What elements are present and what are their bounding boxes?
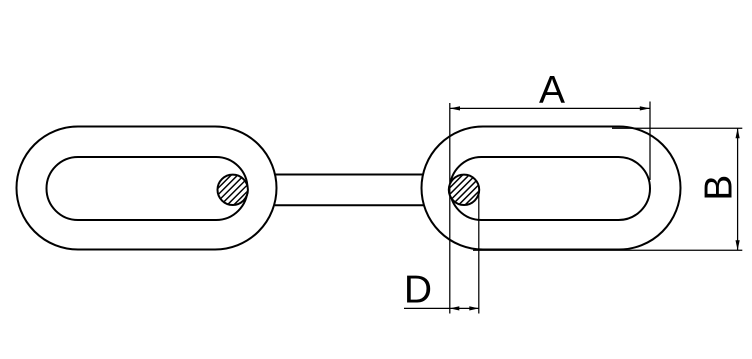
left link inner outline bbox=[47, 157, 248, 220]
dimension B top arrow bbox=[736, 128, 740, 138]
right link wire cross-section (hatched circle) bbox=[449, 175, 479, 205]
middle link (edge view) bottom wire line bbox=[275, 204, 424, 206]
dimension A left arrow bbox=[450, 106, 460, 110]
right link outer outline bbox=[422, 127, 681, 250]
dimension D right arrow bbox=[469, 306, 479, 310]
dimension B line bbox=[737, 128, 739, 250]
left link wire cross-section (hatched circle) bbox=[218, 175, 248, 205]
right cross-section hatching bbox=[426, 168, 503, 212]
dimension A extension line left (shared with D left) bbox=[449, 103, 451, 314]
dimension B extension line top bbox=[612, 127, 742, 129]
dimension A right arrow bbox=[640, 106, 650, 110]
dimension D line with left leader bbox=[404, 307, 479, 309]
svg-text:A: A bbox=[539, 69, 565, 112]
middle link (edge view) top wire line bbox=[275, 174, 424, 176]
dimension B extension line bottom bbox=[473, 249, 742, 251]
dimension D left arrow bbox=[450, 306, 460, 310]
dimension A line bbox=[450, 107, 650, 109]
svg-text:B: B bbox=[698, 175, 741, 201]
svg-text:D: D bbox=[404, 269, 432, 312]
right link inner outline bbox=[450, 157, 650, 220]
left cross-section hatching bbox=[194, 168, 271, 212]
left link outer outline bbox=[17, 127, 277, 250]
dimension D extension line right bbox=[478, 192, 480, 314]
dimension A extension line right bbox=[649, 102, 651, 181]
dimension B bottom arrow bbox=[736, 240, 740, 250]
